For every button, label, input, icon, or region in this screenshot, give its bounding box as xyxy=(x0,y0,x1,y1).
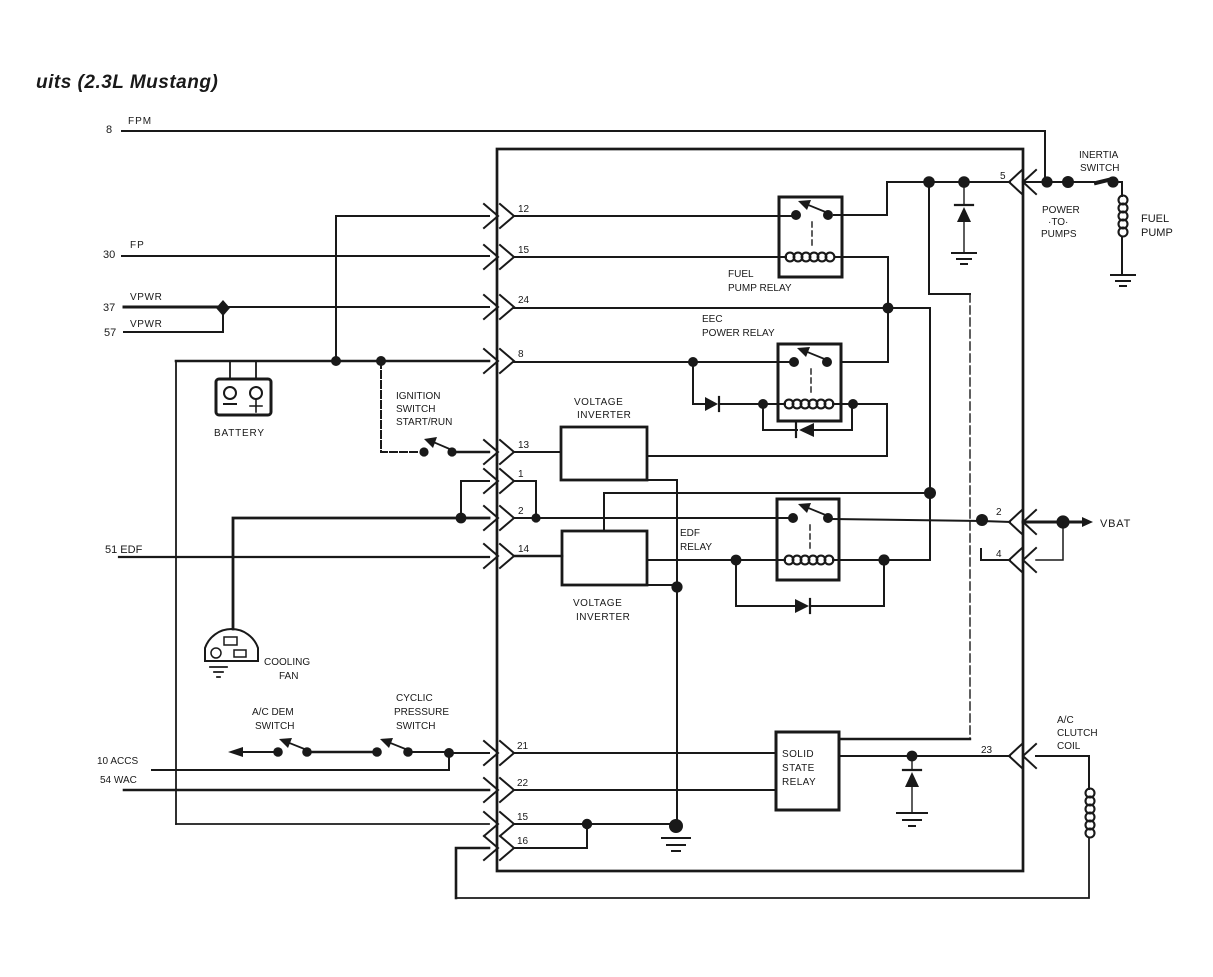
wire inverter U2 ground stub xyxy=(645,584,677,586)
pin 13 connector xyxy=(484,440,530,464)
pin 22 connector xyxy=(484,778,529,802)
battery BAT1 xyxy=(216,361,271,415)
fuel pump relay K1 xyxy=(779,197,842,277)
svg-text:COOLING: COOLING xyxy=(264,657,310,668)
svg-text:PRESSURE: PRESSURE xyxy=(394,707,449,718)
wire pin 15 lower to ground node xyxy=(514,823,670,825)
VBAT arrow xyxy=(1082,517,1093,527)
svg-text:IGNITION: IGNITION xyxy=(396,391,440,402)
wire EDF coil out xyxy=(833,559,930,561)
svg-text:15: 15 xyxy=(517,812,529,823)
wire FP to pin 15 xyxy=(122,255,489,257)
wire pin 13 to inverter xyxy=(514,451,561,453)
node junction VPWR (diamond) xyxy=(216,300,230,316)
ignition switch S1 xyxy=(381,361,489,457)
svg-text:5: 5 xyxy=(1000,171,1006,182)
wire pin 16 jog up xyxy=(514,824,587,848)
EDF relay K3 xyxy=(777,499,839,580)
wire ACCS xyxy=(152,753,449,770)
node junction pin15/pin16 xyxy=(582,819,592,829)
svg-text:PUMP RELAY: PUMP RELAY xyxy=(728,283,792,294)
svg-text:15: 15 xyxy=(518,245,530,256)
ground under diode CR5 xyxy=(897,813,927,826)
node junction pin23 / diode xyxy=(907,751,918,762)
wire fuel pump relay switch out to pin 5 line xyxy=(834,182,1010,215)
wire pin 1 inside jog xyxy=(514,481,536,518)
cyclic pressure switch S3 xyxy=(372,738,445,757)
diode CR5 to ground xyxy=(903,756,921,812)
svg-text:14: 14 xyxy=(518,544,530,555)
svg-text:SWITCH: SWITCH xyxy=(255,721,294,732)
pin 14 connector xyxy=(484,544,530,568)
svg-text:VOLTAGE: VOLTAGE xyxy=(574,397,623,408)
svg-text:·TO·: ·TO· xyxy=(1048,217,1068,228)
svg-text:COIL: COIL xyxy=(1057,741,1081,752)
pin 15 lower connector xyxy=(484,812,529,836)
svg-text:EDF: EDF xyxy=(680,528,700,539)
node junction bus / pin12 feed xyxy=(331,356,341,366)
ground under diode CR1 xyxy=(952,253,976,264)
svg-text:12: 12 xyxy=(518,204,530,215)
wire battery bus to pin 8 xyxy=(176,360,489,363)
svg-text:4: 4 xyxy=(996,549,1002,560)
node main ground junction xyxy=(669,819,683,833)
svg-text:SWITCH: SWITCH xyxy=(1080,163,1119,174)
svg-text:21: 21 xyxy=(517,741,529,752)
voltage inverter U2 xyxy=(562,531,647,585)
svg-text:EEC: EEC xyxy=(702,314,723,325)
svg-text:22: 22 xyxy=(517,778,529,789)
wire pin 14 to inverter 2 xyxy=(514,555,562,558)
svg-text:2: 2 xyxy=(518,506,524,517)
svg-text:START/RUN: START/RUN xyxy=(396,417,452,428)
svg-text:PUMP: PUMP xyxy=(1141,227,1173,239)
svg-text:16: 16 xyxy=(517,836,529,847)
wire battery bus to pin 15 (lower) xyxy=(176,823,489,825)
svg-text:POWER RELAY: POWER RELAY xyxy=(702,328,775,339)
svg-text:57: 57 xyxy=(104,327,116,339)
pin 4 connector (right) xyxy=(996,548,1036,572)
svg-text:A/C: A/C xyxy=(1057,715,1074,726)
diode CR2 (to relay coil) xyxy=(705,397,785,411)
pin 24 connector xyxy=(484,295,530,319)
diode CR4 suppression loop xyxy=(736,560,884,613)
pin 23 connector (right) xyxy=(981,744,1036,768)
pin 8 connector xyxy=(484,349,524,373)
pin 12 connector xyxy=(484,204,530,228)
wire pin 12 to fuel pump relay xyxy=(514,215,793,217)
wire pin1 outside branch xyxy=(461,481,489,518)
svg-text:VPWR: VPWR xyxy=(130,319,162,330)
node junction pin2 / pin1 branch xyxy=(456,513,467,524)
solid state relay K4 xyxy=(776,732,839,810)
svg-text:CLUTCH: CLUTCH xyxy=(1057,728,1098,739)
wire clutch coil return bottom xyxy=(456,838,1089,898)
svg-text:2: 2 xyxy=(996,507,1002,518)
pin 21 connector xyxy=(484,741,529,765)
diode CR3 suppression loop xyxy=(763,404,852,437)
wire pin12 feed riser xyxy=(336,216,489,361)
svg-text:RELAY: RELAY xyxy=(782,777,816,788)
node junction bus / ignition feed xyxy=(376,356,386,366)
svg-text:13: 13 xyxy=(518,440,530,451)
svg-text:A/C DEM: A/C DEM xyxy=(252,707,294,718)
a/c clutch coil L2 xyxy=(1086,789,1095,838)
wire pin 23 external to clutch coil xyxy=(1036,756,1089,789)
pin 16 connector xyxy=(484,836,529,860)
wire to pin 21 xyxy=(449,752,489,754)
wire inverter U1 ground stub xyxy=(645,479,677,481)
svg-text:RELAY: RELAY xyxy=(680,542,712,553)
wire pin 15 to fuel pump relay coil xyxy=(514,256,786,258)
svg-text:23: 23 xyxy=(981,745,993,756)
svg-text:POWER: POWER xyxy=(1042,205,1080,216)
node junction pumps xyxy=(1062,176,1074,188)
svg-text:uits (2.3L Mustang): uits (2.3L Mustang) xyxy=(36,72,218,93)
node junction coil out / loop xyxy=(878,554,889,565)
wire pin 2 to EDF relay xyxy=(514,517,793,519)
wire VPWR 37 to pin 24 xyxy=(124,306,223,309)
wire FPM horizontal xyxy=(122,130,1045,132)
node junction pin24 / relay link xyxy=(883,303,894,314)
inertia switch S4 xyxy=(1096,176,1122,187)
svg-text:STATE: STATE xyxy=(782,763,815,774)
svg-text:VBAT: VBAT xyxy=(1100,518,1131,530)
wire riser from power-to-pumps down xyxy=(929,182,970,294)
svg-text:VOLTAGE: VOLTAGE xyxy=(573,598,622,609)
wire EEC coil right out xyxy=(833,404,887,456)
node junction coil in / loop xyxy=(731,555,742,566)
wire solid state relay top output xyxy=(839,738,970,740)
svg-text:FUEL: FUEL xyxy=(1141,213,1169,225)
ground under inverters xyxy=(662,838,690,851)
wire EDF switch out to VBAT pin xyxy=(833,519,1010,522)
fuel pump L1 coil xyxy=(1119,182,1128,274)
svg-text:INVERTER: INVERTER xyxy=(577,410,631,421)
wire inverter U1 output xyxy=(647,455,887,457)
svg-text:INERTIA: INERTIA xyxy=(1079,150,1119,161)
wire pin 4 external jog xyxy=(1036,522,1063,560)
wire WAC to pin 22 xyxy=(124,789,489,792)
wire pin 21 to solid state relay xyxy=(514,752,776,754)
svg-text:CYCLIC: CYCLIC xyxy=(396,693,433,704)
node junction pin1/pin2 inside xyxy=(531,513,540,522)
svg-text:37: 37 xyxy=(103,302,115,314)
a/c demand switch S2 xyxy=(228,738,312,757)
pin 2 connector xyxy=(484,506,524,530)
svg-text:FPM: FPM xyxy=(128,116,152,127)
cooling fan M1 xyxy=(205,629,258,677)
wire cooling fan feed / pin 2 xyxy=(233,518,489,629)
wire power to pumps external xyxy=(1023,181,1094,183)
pin 1 connector xyxy=(484,469,524,493)
node junction power-to-pumps / diode xyxy=(958,176,970,188)
EEC power relay K2 xyxy=(778,344,841,421)
ground under fuel pump xyxy=(1111,275,1135,286)
EEC module box xyxy=(497,149,1023,871)
wire VBAT external xyxy=(1023,521,1082,524)
pin 5 connector (right) xyxy=(1000,170,1036,194)
wire ground rail vertical xyxy=(676,480,678,826)
wire inverter U2 top pin xyxy=(604,493,930,531)
wire pin24 riser down xyxy=(929,308,931,560)
wire inverter U2 out to EDF coil xyxy=(647,559,785,561)
node junction power-to-pumps / riser xyxy=(923,176,935,188)
svg-text:1: 1 xyxy=(518,469,524,480)
node junction coil left / loop xyxy=(758,399,768,409)
svg-text:10 ACCS: 10 ACCS xyxy=(97,756,138,767)
svg-text:PUMPS: PUMPS xyxy=(1041,229,1077,240)
wire pin16 external drop xyxy=(456,848,489,898)
svg-text:30: 30 xyxy=(103,249,115,261)
voltage inverter U1 xyxy=(561,427,647,480)
node junction coil right / loop xyxy=(848,399,858,409)
wire pin 8 to EEC power relay xyxy=(514,361,794,363)
wire fuel pump relay coil out down xyxy=(836,257,888,362)
svg-text:FP: FP xyxy=(130,240,145,251)
wire FPM drop to inertia line xyxy=(1044,131,1046,182)
diode CR1 to ground xyxy=(955,182,973,252)
pin 15 connector xyxy=(484,245,530,269)
wire solid state relay to pin 23 xyxy=(839,755,1010,757)
svg-text:FUEL: FUEL xyxy=(728,269,754,280)
node junction VBAT inside xyxy=(976,514,988,526)
wire long riser to solid state relay xyxy=(969,294,971,739)
svg-text:8: 8 xyxy=(518,349,524,360)
svg-text:8: 8 xyxy=(106,124,112,136)
svg-text:SWITCH: SWITCH xyxy=(396,721,435,732)
svg-text:BATTERY: BATTERY xyxy=(214,428,265,439)
svg-text:VPWR: VPWR xyxy=(130,292,162,303)
node junction VBAT / pin4 xyxy=(1056,515,1069,528)
svg-text:SOLID: SOLID xyxy=(782,749,814,760)
node junction ACCS / switch row xyxy=(444,748,454,758)
svg-text:FAN: FAN xyxy=(279,671,298,682)
wire pin 24 to riser xyxy=(514,307,930,309)
svg-text:54 WAC: 54 WAC xyxy=(100,775,137,786)
wire left vertical battery feed down xyxy=(175,361,177,824)
wire between switches xyxy=(307,751,377,754)
pin 2 VBAT connector (right) xyxy=(996,507,1036,534)
svg-text:INVERTER: INVERTER xyxy=(576,612,630,623)
wire pin8 branch down to diode CR2 xyxy=(693,362,704,404)
wire pin4 inside link xyxy=(981,549,1010,560)
svg-text:51 EDF: 51 EDF xyxy=(105,544,143,556)
wire VPWR 57 joins 37 xyxy=(124,307,223,332)
node junction ground rail / inverter2 xyxy=(671,581,682,592)
node junction FPM / pumps xyxy=(1041,176,1052,187)
svg-text:24: 24 xyxy=(518,295,530,306)
svg-text:SWITCH: SWITCH xyxy=(396,404,435,415)
wire EDF to pin 14 xyxy=(119,556,489,558)
node junction riser / inverter2 line xyxy=(924,487,936,499)
node junction pin8 / diode branch xyxy=(688,357,698,367)
wire pin 22 to solid state relay xyxy=(514,789,776,791)
